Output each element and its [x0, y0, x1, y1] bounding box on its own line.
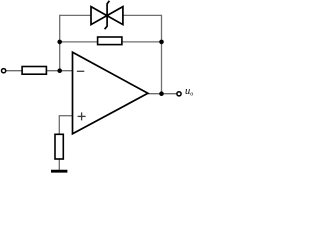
op-amp U1 noninverting input plus sign: [78, 112, 86, 120]
input terminal circle: [2, 69, 6, 73]
wire noninverting input horizontal: [59, 115, 72, 117]
wire output: [148, 93, 177, 95]
zener diode D1 bidirectional right triangle: [107, 7, 123, 25]
zener diode D1 bidirectional left triangle: [91, 7, 107, 25]
op-amp U1 inverting input minus sign: [77, 70, 84, 72]
wire input from terminal to inverting input: [6, 70, 73, 72]
zener diode D1 center bar with hooks: [105, 1, 110, 29]
wire right vertical feedback branch: [161, 15, 163, 94]
wire left vertical feedback branch: [59, 15, 61, 71]
resistor R3 to ground: [55, 134, 63, 159]
junction dot node B right feedback/resistor: [159, 40, 164, 45]
resistor R2 feedback: [98, 37, 122, 45]
op-amp U1 triangle: [73, 52, 148, 134]
junction dot inverting input node: [57, 68, 62, 73]
wire noninverting input vertical to ground: [58, 115, 60, 170]
wire top feedback (node A to node B): [60, 14, 162, 16]
ground: [51, 170, 67, 173]
wire feedback resistor branch: [60, 41, 162, 43]
zener diode D1 center junction blob: [105, 14, 109, 18]
junction dot output node: [159, 91, 164, 96]
resistor R1 input: [22, 67, 46, 75]
svg-text:uo: uo: [185, 86, 193, 98]
output terminal circle: [177, 92, 181, 96]
junction dot node A left feedback/resistor: [57, 40, 62, 45]
